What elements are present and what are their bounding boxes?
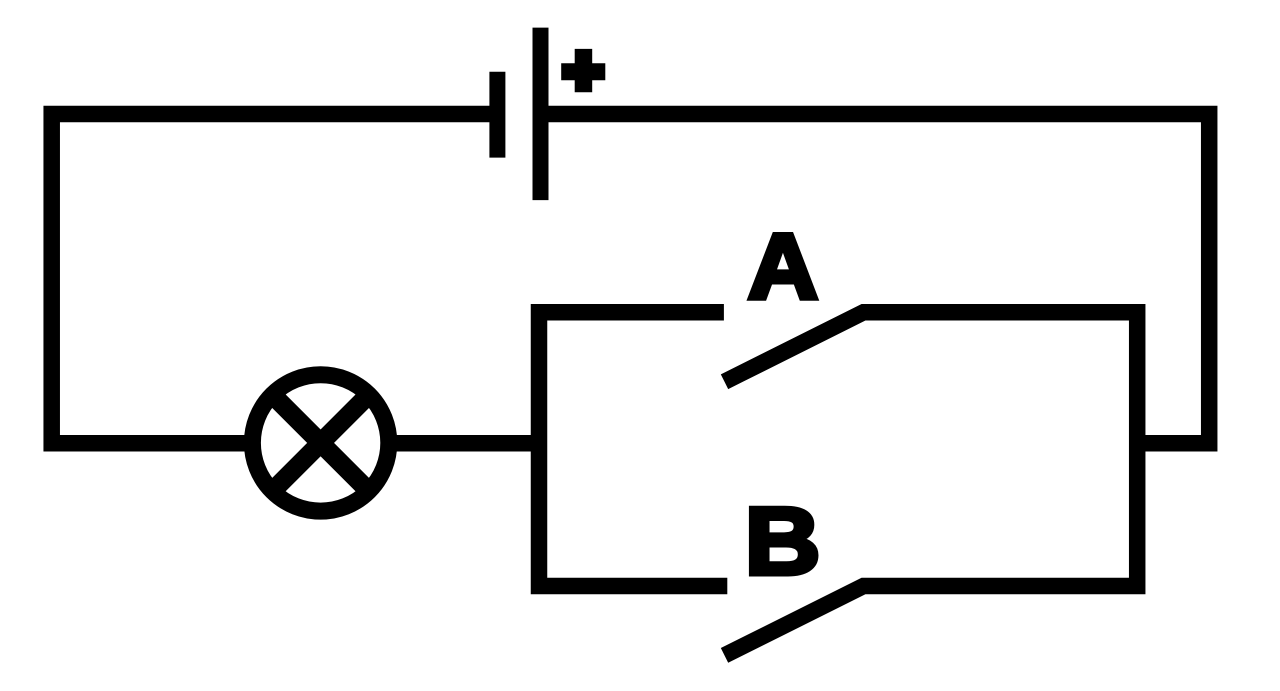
wire: battery plus to top-right corner, right side down, connector to branch right vertical bbox=[549, 114, 1210, 443]
svg-text:A: A bbox=[748, 215, 818, 319]
battery positive plate bbox=[533, 28, 549, 201]
wire: lamp right to branch left vertical bbox=[389, 435, 540, 452]
battery negative plate bbox=[489, 72, 505, 158]
wire: left loop (top wire to battery minus, left side, middle wire to lamp) bbox=[52, 114, 490, 443]
battery BT1 bbox=[497, 28, 540, 201]
wire: branch left (switch A left contact, left vertical, switch B left contact) bbox=[539, 312, 727, 586]
switch A blade + wire: right contacts and branch right vertical + switch B blade bbox=[725, 312, 1138, 655]
battery polarity + sign bbox=[561, 49, 605, 92]
lamp L1 (circle with X) bbox=[252, 375, 388, 511]
svg-text:B: B bbox=[745, 488, 821, 595]
